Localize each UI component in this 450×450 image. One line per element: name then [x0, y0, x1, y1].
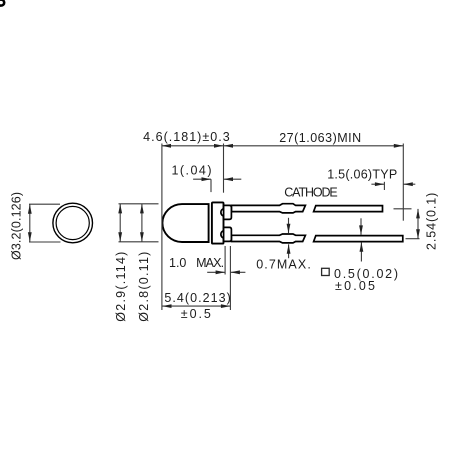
extension line flange right (4.6 / 27 / 1(.04)) — [223, 144, 225, 193]
dim phi2.9/2.8 extension line bottom — [119, 241, 159, 243]
dim phi3.2 arrow down — [28, 232, 32, 242]
dim phi2.9 dimension line — [119, 204, 121, 242]
dim 0.5 upper arrow — [359, 225, 363, 235]
LED top view outer circle — [53, 203, 93, 243]
dim 2.54 dimension line — [417, 209, 419, 239]
corner text fragment artifact — [0, 0, 4, 6]
bottom lead main segment with crimp nub — [231, 234, 305, 243]
dim 4.6 arrow left — [162, 144, 172, 148]
square symbol for 0.5 — [322, 268, 330, 275]
top lead main segment with crimp nub — [231, 204, 305, 213]
extension line left of body (4.6 / 5.4) — [161, 144, 163, 311]
bottom lead ball bulge — [221, 231, 227, 239]
dim 1.0MAX extension line right — [229, 246, 231, 310]
dim 1(.04) left arrow tail — [193, 178, 211, 180]
dim 1.5TYP extension line — [383, 182, 385, 190]
LED body dome — [162, 204, 208, 242]
dim 1(.04) right arrow tail — [224, 178, 242, 180]
dim 0.5 lower arrow line — [360, 242, 362, 261]
svg-text:5.4(0.213): 5.4(0.213) — [164, 291, 231, 305]
dim 0.5 lower arrow — [360, 242, 364, 252]
dim 5.4 arrow right — [221, 304, 231, 308]
dim 1.0MAX left arrow tail — [207, 271, 225, 273]
top lead far segment — [314, 206, 383, 212]
bottom lead tab at flange — [224, 227, 232, 241]
dim phi3.2 arrow up — [28, 204, 32, 214]
dim 27 arrow left — [224, 144, 234, 148]
dim 2.54 arrow up — [416, 209, 420, 219]
svg-text:Ø2.9(.114): Ø2.9(.114) — [114, 252, 128, 322]
dim 0.7MAX lower arrow — [287, 244, 291, 254]
dim phi2.8 arrow up — [140, 204, 144, 214]
dim 1.0MAX extension line left — [224, 246, 226, 275]
dim 1.0MAX left arrow — [216, 270, 226, 274]
dim 1(.04) left arrow — [202, 177, 212, 181]
dim phi3.2 extension line top — [29, 203, 60, 205]
dim 2.54 extension line top — [394, 208, 412, 210]
svg-text:CATHODE: CATHODE — [284, 185, 338, 199]
dim 4.6/27 dimension line — [162, 145, 404, 147]
top lead tab at flange — [224, 205, 232, 219]
dim 5.4 dimension line — [162, 305, 230, 307]
dim phi2.8 arrow down — [140, 232, 144, 242]
LED flange — [212, 202, 224, 243]
dim phi2.9 arrow up — [118, 204, 122, 214]
top lead ball bulge — [221, 209, 227, 217]
svg-text:27(1.063)MIN: 27(1.063)MIN — [279, 131, 361, 145]
extension line lead ends right (27 / 1.5TYP) — [402, 144, 404, 221]
dim phi3.2 extension line bottom — [29, 241, 61, 243]
dim 0.7MAX lower arrow line — [288, 244, 290, 258]
dim 1.0MAX right arrow tail — [230, 271, 245, 273]
dim 1(.04) extension line — [210, 179, 212, 192]
dim phi2.9 arrow down — [118, 232, 122, 242]
svg-text:±0.05: ±0.05 — [335, 279, 375, 293]
dim phi2.8 dimension line — [141, 204, 143, 242]
dim 1.5TYP left arrow tail — [371, 183, 384, 185]
dim 4.6 arrow right — [214, 144, 224, 148]
dim phi2.9/2.8 extension line top — [119, 203, 159, 205]
dim 1.5TYP right arrow tail — [403, 183, 415, 185]
bottom lead far segment — [314, 236, 403, 242]
dim phi3.2 dimension line — [29, 204, 31, 241]
dim 5.4 arrow left — [162, 304, 172, 308]
dim 2.54 arrow down — [416, 229, 420, 239]
svg-text:MAX.: MAX. — [196, 256, 224, 270]
dim 2.54 extension line bottom — [406, 238, 420, 240]
dim 1(.04) right arrow — [224, 177, 234, 181]
dim 27 arrow right — [394, 144, 404, 148]
svg-text:0.7MAX.: 0.7MAX. — [256, 258, 311, 272]
svg-text:Ø3.2(0.126): Ø3.2(0.126) — [10, 192, 24, 260]
svg-text:1(.04): 1(.04) — [172, 164, 212, 178]
svg-text:±0.5: ±0.5 — [181, 307, 211, 321]
svg-text:4.6(.181)±0.3: 4.6(.181)±0.3 — [143, 130, 230, 144]
svg-text:2.54(0.1): 2.54(0.1) — [424, 193, 438, 250]
dim 1.0MAX right arrow — [230, 270, 240, 274]
svg-text:Ø2.8(0.11): Ø2.8(0.11) — [137, 252, 151, 322]
dim 1.5TYP left arrow — [375, 182, 385, 186]
dim 1.5TYP right arrow — [403, 182, 413, 186]
dim 0.5 upper arrow line — [360, 218, 362, 235]
LED top view inner circle — [56, 206, 89, 239]
dim 0.7MAX upper arrow line — [288, 218, 290, 234]
svg-text:1.0: 1.0 — [169, 256, 186, 270]
svg-text:1.5(.06)TYP: 1.5(.06)TYP — [327, 167, 397, 181]
dim 0.7MAX upper arrow — [287, 224, 291, 234]
